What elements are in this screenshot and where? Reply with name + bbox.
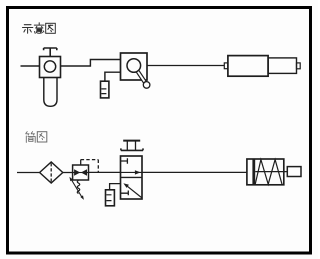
- valve top blocked port: [121, 158, 128, 163]
- hand valve body: [121, 53, 148, 80]
- FRL filter bowl: [44, 78, 57, 107]
- hand valve lever: [136, 70, 146, 83]
- cylinder rod end nub: [297, 63, 301, 69]
- valve flow arrowhead: [135, 170, 141, 174]
- regulator pilot stub: [80, 160, 82, 165]
- muffler baffles: [101, 89, 106, 94]
- muffler (pictorial): [101, 81, 109, 98]
- cylinder piston: [252, 159, 255, 185]
- valve bottom blocked port: [121, 191, 129, 196]
- FRL adjusting T-handle: [44, 48, 57, 57]
- filter-regulator FRL body: [40, 57, 61, 78]
- FRL gauge circle: [44, 61, 55, 72]
- wire filter to regulator: [63, 172, 73, 174]
- 3/2 valve body: [121, 156, 143, 199]
- wire valve to muffler: [105, 72, 121, 81]
- wire inlet to filter-regulator: [21, 65, 40, 67]
- regulator pilot dashed line: [81, 159, 99, 161]
- label 简图: [26, 132, 47, 143]
- muffler baffles: [106, 195, 111, 201]
- regulator body: [73, 165, 89, 180]
- lever knob: [143, 82, 150, 89]
- cylinder body (pictorial): [228, 56, 268, 77]
- push button plate: [121, 148, 143, 150]
- filter symbol diamond: [40, 162, 63, 183]
- label 示意图: [23, 23, 56, 34]
- filter dashed element: [50, 163, 52, 182]
- regulator spring: [77, 181, 80, 194]
- wire inlet to filter: [17, 172, 40, 174]
- wire valve to cylinder: [147, 65, 224, 67]
- rod end block: [287, 167, 301, 177]
- regulator flow triangles: [74, 169, 80, 176]
- push button posts: [127, 141, 135, 151]
- valve exhaust diagonal: [127, 186, 142, 198]
- push button cap: [123, 140, 140, 142]
- cylinder sleeve/rod section: [268, 58, 296, 74]
- muffler (symbol): [106, 190, 115, 206]
- hand valve circle: [127, 59, 141, 73]
- return spring: [255, 160, 282, 185]
- cylinder rod: [255, 171, 287, 173]
- wire valve to cylinder: [142, 171, 247, 173]
- wire filter to valve with step: [61, 60, 121, 67]
- 3/2 valve position divider: [121, 176, 143, 178]
- wire valve to exhaust muffler: [110, 184, 121, 190]
- wire through regulator: [73, 172, 89, 174]
- cylinder inlet nub: [224, 63, 228, 69]
- regulator adjust arrow: [71, 179, 82, 197]
- valve through-flow line: [121, 171, 143, 173]
- wire regulator to valve: [89, 171, 121, 173]
- cylinder body (symbol): [247, 159, 284, 185]
